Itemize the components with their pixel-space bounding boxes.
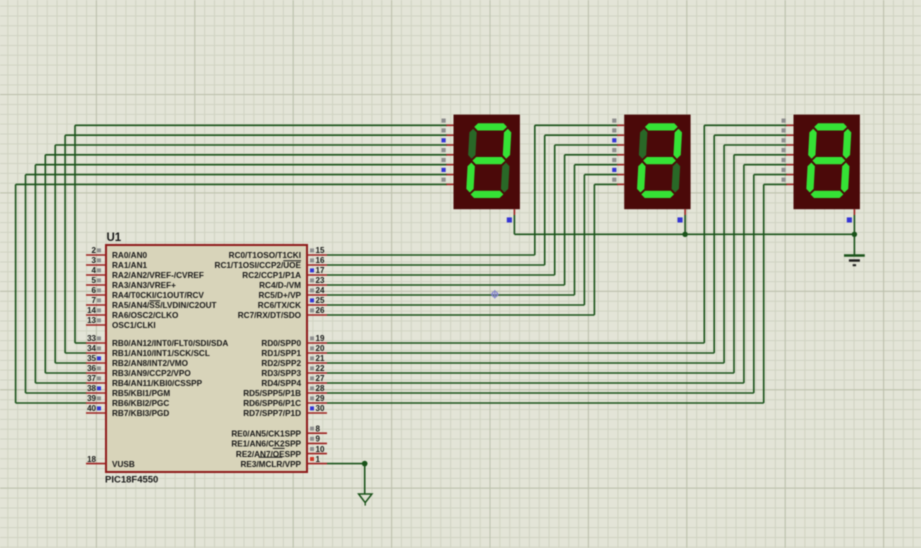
pin 34 stub/number (RB1) (86, 344, 106, 353)
pin 23 stub/number (RC) (307, 276, 327, 285)
pin 27 stub/number (RD4) (307, 374, 327, 383)
svg-text:RC5/D+/VP: RC5/D+/VP (258, 291, 301, 300)
svg-text:RD0/SPP0: RD0/SPP0 (261, 339, 301, 348)
pin name label RB1/AN10/INT1/SCK/SCL (112, 349, 210, 358)
display D1 segment pin 3 stub (442, 138, 454, 145)
svg-text:22: 22 (316, 364, 325, 373)
svg-text:4: 4 (92, 266, 97, 275)
svg-text:RD7/SPP7/P1D: RD7/SPP7/P1D (243, 409, 301, 418)
pin 3 stub/number (RA) (86, 256, 106, 265)
pin 13 stub/number (RA) (86, 316, 106, 325)
op IC body: microcontroller U1 PIC18F4550 (106, 245, 307, 472)
svg-text:9: 9 (316, 435, 321, 444)
display D1 segment pin 7 stub (442, 178, 454, 185)
pin name label RA2/AN2/VREF-/CVREF (112, 271, 204, 280)
svg-text:27: 27 (316, 374, 325, 383)
pin 40 stub/number (RB7) (86, 404, 106, 413)
display D1 segment pin 2 stub (442, 128, 454, 135)
pin name label RD4/SPP4 (261, 379, 301, 388)
svg-text:RA5/AN4/SS/LVDIN/C2OUT: RA5/AN4/SS/LVDIN/C2OUT (112, 301, 216, 310)
pin name label RB7/KBI3/PGD (112, 409, 169, 418)
pin 5 stub/number (RA) (86, 276, 106, 285)
display D1 segment pin 4 stub (442, 148, 454, 155)
pin name label RA5/AN4/SS/LVDIN/C2OUT (112, 301, 216, 310)
svg-text:RE3/MCLR/VPP: RE3/MCLR/VPP (240, 460, 301, 469)
svg-text:24: 24 (316, 286, 325, 295)
pin name label VUSB (112, 460, 135, 469)
pin name label RC0/T1OSO/T1CKI (229, 251, 301, 260)
pin name label RB3/AN9/CCP2/VPO (112, 369, 191, 378)
pin name label OSC1/CLKI (112, 321, 156, 330)
reference designator U1 (107, 232, 122, 244)
svg-text:2: 2 (92, 246, 97, 255)
pin name label RE0/AN5/CK1SPP (231, 429, 301, 438)
wire RD5 (pin row) to display D3 segment pin 6 (327, 175, 787, 393)
pin 2 stub/number (RA) (86, 246, 106, 255)
pin 30 stub/number (RD7) (307, 404, 327, 413)
svg-text:38: 38 (87, 384, 96, 393)
svg-text:RD5/SPP5/P1B: RD5/SPP5/P1B (243, 389, 301, 398)
svg-text:RE1/AN6/CK2SPP: RE1/AN6/CK2SPP (231, 440, 301, 449)
junction at D3 common / ground (852, 232, 857, 237)
pin 17 stub/number (RC) (307, 266, 327, 275)
7-segment display D2 showing 2 (624, 115, 690, 210)
wire common-cathode rail from D1 to D3 (514, 215, 854, 234)
svg-text:30: 30 (316, 404, 325, 413)
pin 6 stub/number (RA) (86, 286, 106, 295)
svg-text:RA0/AN0: RA0/AN0 (112, 251, 147, 260)
display D2 common pin stub (678, 209, 686, 222)
wire RC (right pin row 6) to display D2 segment pin 6 (327, 175, 618, 305)
svg-text:40: 40 (87, 404, 96, 413)
wire RD0 (pin row) to display D3 segment pin 1 (327, 125, 787, 343)
pin name label RA4/T0CKI/C1OUT/RCV (112, 291, 204, 300)
display D1 common pin stub (507, 209, 515, 222)
svg-text:3: 3 (92, 256, 97, 265)
svg-text:RB6/KBI2/PGC: RB6/KBI2/PGC (112, 399, 169, 408)
svg-text:10: 10 (316, 445, 325, 454)
svg-text:37: 37 (87, 374, 96, 383)
pin 20 stub/number (RD1) (307, 344, 327, 353)
wire RC (right pin row 5) to display D2 segment pin 5 (327, 165, 618, 295)
pin name label RA3/AN3/VREF+ (112, 281, 176, 290)
svg-text:19: 19 (316, 334, 325, 343)
pin 37 stub/number (RB4) (86, 374, 106, 383)
svg-text:RD3/SPP3: RD3/SPP3 (261, 369, 301, 378)
svg-text:U1: U1 (107, 232, 122, 244)
svg-text:RC0/T1OSO/T1CKI: RC0/T1OSO/T1CKI (229, 251, 301, 260)
svg-text:23: 23 (316, 276, 325, 285)
pin name label RB4/AN11/KBI0/CSSPP (112, 379, 203, 388)
wire RB1 (pin 34) to display D1 segment pin 2 (65, 135, 447, 353)
wire RD4 (pin row) to display D3 segment pin 5 (327, 165, 787, 383)
pin 36 stub/number (RB3) (86, 364, 106, 373)
svg-text:35: 35 (87, 354, 96, 363)
svg-text:RC6/TX/CK: RC6/TX/CK (258, 301, 301, 310)
wire RB6 (pin 39) to display D1 segment pin 7 (16, 184, 447, 403)
value label PIC18F4550 (105, 475, 158, 486)
svg-text:6: 6 (92, 286, 97, 295)
pin name label RA1/AN1 (112, 261, 147, 270)
svg-text:RC2/CCP1/P1A: RC2/CCP1/P1A (242, 271, 301, 280)
pin name label RC7/RX/DT/SDO (238, 311, 302, 320)
pin name label RC6/TX/CK (258, 301, 301, 310)
pin name label RA0/AN0 (112, 251, 147, 260)
pin 25 stub/number (RC) (307, 296, 327, 305)
pin 24 stub/number (RC) (307, 286, 327, 295)
pin 29 stub/number (RD6) (307, 394, 327, 403)
wire RC (right pin row 4) to display D2 segment pin 4 (327, 155, 618, 285)
svg-text:RA1/AN1: RA1/AN1 (112, 261, 147, 270)
pin name label RD6/SPP6/P1C (243, 399, 301, 408)
pin 14 stub/number (RA) (86, 306, 106, 315)
svg-text:RA3/AN3/VREF+: RA3/AN3/VREF+ (112, 281, 176, 290)
display D3 segment pin 5 stub (782, 158, 794, 165)
wire RD2 (pin row) to display D3 segment pin 3 (327, 145, 787, 363)
svg-text:1: 1 (316, 455, 321, 464)
pin name label RC5/D+/VP (258, 291, 301, 300)
pin 39 stub/number (RB6) (86, 394, 106, 403)
7-segment display D1 showing 2 (454, 115, 520, 210)
svg-text:RB7/KBI3/PGD: RB7/KBI3/PGD (112, 409, 169, 418)
svg-text:RB2/AN8/INT2/VMO: RB2/AN8/INT2/VMO (112, 359, 189, 368)
pin 22 stub/number (RD3) (307, 364, 327, 373)
svg-text:25: 25 (316, 296, 325, 305)
svg-text:8: 8 (316, 424, 321, 433)
display D3 segment pin 3 stub (782, 138, 794, 145)
pin name label RD7/SPP7/P1D (243, 409, 301, 418)
overline on OE (RE2 row) (273, 447, 285, 449)
svg-text:RB1/AN10/INT1/SCK/SCL: RB1/AN10/INT1/SCK/SCL (112, 349, 210, 358)
svg-text:RE0/AN5/CK1SPP: RE0/AN5/CK1SPP (231, 429, 301, 438)
svg-text:29: 29 (316, 394, 325, 403)
svg-text:33: 33 (87, 334, 96, 343)
display D2 segment pin 5 stub (612, 158, 624, 165)
svg-text:RD2/SPP2: RD2/SPP2 (261, 359, 301, 368)
display D1 segment pin 1 stub (442, 119, 454, 126)
svg-text:RD4/SPP4: RD4/SPP4 (261, 379, 301, 388)
wire RD3 (pin row) to display D3 segment pin 4 (327, 155, 787, 373)
svg-text:13: 13 (87, 316, 96, 325)
wire RB2 (pin 35) to display D1 segment pin 3 (55, 145, 447, 363)
pin 4 stub/number (RA) (86, 266, 106, 275)
pin 7 stub/number (RA) (86, 296, 106, 305)
wire MCLR pin1 to ground (327, 464, 365, 494)
pin name label RD3/SPP3 (261, 369, 301, 378)
svg-text:RC4/D-/VM: RC4/D-/VM (259, 281, 301, 290)
display D1 segment pin 5 stub (442, 158, 454, 165)
svg-text:RB3/AN9/CCP2/VPO: RB3/AN9/CCP2/VPO (112, 369, 191, 378)
pin 16 stub/number (RC) (307, 256, 327, 265)
wire RB4 (pin 37) to display D1 segment pin 5 (35, 165, 447, 383)
svg-text:RA2/AN2/VREF-/CVREF: RA2/AN2/VREF-/CVREF (112, 271, 204, 280)
svg-text:26: 26 (316, 306, 325, 315)
pin 1 stub/number (RE3) (307, 455, 327, 464)
svg-text:PIC18F4550: PIC18F4550 (105, 475, 158, 486)
display D3 segment pin 2 stub (782, 128, 794, 135)
pin name label RD5/SPP5/P1B (243, 389, 301, 398)
svg-text:14: 14 (87, 306, 96, 315)
wire RC (right pin row 1) to display D2 segment pin 1 (327, 125, 618, 255)
display D3 segment pin 1 stub (782, 119, 794, 126)
svg-text:16: 16 (316, 256, 325, 265)
svg-text:17: 17 (316, 266, 325, 275)
wire RC (right pin row 7) to display D2 segment pin 7 (327, 184, 618, 315)
pin name label RB0/AN12/INT0/FLT0/SDI/SDA (112, 339, 228, 348)
display D2 segment pin 2 stub (612, 128, 624, 135)
svg-text:RC1/T1OSI/CCP2/UOE: RC1/T1OSI/CCP2/UOE (215, 261, 302, 270)
pin 9 stub/number (RE1) (307, 435, 327, 444)
display D2 segment pin 3 stub (612, 138, 624, 145)
pin name label RE2/AN7/OESPP (236, 450, 302, 459)
svg-text:RB0/AN12/INT0/FLT0/SDI/SDA: RB0/AN12/INT0/FLT0/SDI/SDA (112, 339, 228, 348)
pin name label RA6/OSC2/CLKO (112, 311, 179, 320)
sheet origin marker (blue crosshair) (491, 290, 500, 299)
ground arrow terminal below U1 (359, 494, 372, 506)
wire RB3 (pin 36) to display D1 segment pin 4 (45, 155, 447, 373)
junction at pin1 net corner (362, 461, 368, 467)
pin name label RB2/AN8/INT2/VMO (112, 359, 189, 368)
svg-text:15: 15 (316, 246, 325, 255)
pin name label RD0/SPP0 (261, 339, 301, 348)
pin 21 stub/number (RD2) (307, 354, 327, 363)
junction at D2 common (682, 232, 687, 237)
pin 18 stub/number (VUSB) (86, 455, 106, 464)
svg-text:RA4/T0CKI/C1OUT/RCV: RA4/T0CKI/C1OUT/RCV (112, 291, 204, 300)
pin name label RC1/T1OSI/CCP2/UOE (215, 261, 302, 270)
display D1 segment pin 6 stub (442, 168, 454, 175)
wire D2 common pin to rail (684, 215, 686, 234)
svg-text:18: 18 (87, 455, 96, 464)
7-segment display D3 showing 8 (794, 115, 860, 210)
ground symbol (earth) below D3 (844, 234, 865, 265)
pin name label RE1/AN6/CK2SPP (231, 440, 301, 449)
svg-text:RD1/SPP1: RD1/SPP1 (261, 349, 301, 358)
wire D3 common pin to rail/ground (853, 215, 855, 234)
display D3 segment pin 7 stub (782, 178, 794, 185)
svg-text:28: 28 (316, 384, 325, 393)
display D2 segment pin 4 stub (612, 148, 624, 155)
pin 28 stub/number (RD5) (307, 384, 327, 393)
pin 19 stub/number (RD0) (307, 334, 327, 343)
wire RD6 (pin row) to display D3 segment pin 7 (327, 184, 787, 403)
display D2 segment pin 1 stub (612, 119, 624, 126)
wire RB0 (pin 33) to display D1 segment pin 1 (75, 125, 447, 343)
overline on MCLR (RE3 row) (259, 456, 283, 458)
svg-text:5: 5 (92, 276, 97, 285)
pin name label RD2/SPP2 (261, 359, 301, 368)
display D3 common pin stub (847, 209, 855, 222)
pin name label RD1/SPP1 (261, 349, 301, 358)
svg-text:21: 21 (316, 354, 325, 363)
svg-text:20: 20 (316, 344, 325, 353)
display D2 segment pin 6 stub (612, 168, 624, 175)
svg-text:7: 7 (92, 296, 97, 305)
pin 33 stub/number (RB0) (86, 334, 106, 343)
svg-text:RA6/OSC2/CLKO: RA6/OSC2/CLKO (112, 311, 179, 320)
svg-text:36: 36 (87, 364, 96, 373)
overline on UOE (RC1 row) (283, 260, 301, 262)
pin name label RC4/D-/VM (259, 281, 301, 290)
svg-text:RC7/RX/DT/SDO: RC7/RX/DT/SDO (238, 311, 302, 320)
svg-text:RD6/SPP6/P1C: RD6/SPP6/P1C (243, 399, 301, 408)
overline on SS (RA5 row) (149, 300, 160, 302)
pin 15 stub/number (RC) (307, 246, 327, 255)
svg-text:39: 39 (87, 394, 96, 403)
pin name label RB5/KBI1/PGM (112, 389, 170, 398)
pin 35 stub/number (RB2) (86, 354, 106, 363)
wire RC (right pin row 2) to display D2 segment pin 2 (327, 135, 618, 265)
display D3 segment pin 4 stub (782, 148, 794, 155)
pin 10 stub/number (RE2) (307, 445, 327, 454)
display D3 segment pin 6 stub (782, 168, 794, 175)
svg-text:VUSB: VUSB (112, 460, 135, 469)
pin 8 stub/number (RE0) (307, 424, 327, 433)
pin name label RE3/MCLR/VPP (240, 460, 301, 469)
wire RB5 (pin 38) to display D1 segment pin 6 (26, 175, 448, 393)
pin 26 stub/number (RC) (307, 306, 327, 315)
pin 38 stub/number (RB5) (86, 384, 106, 393)
pin name label RC2/CCP1/P1A (242, 271, 301, 280)
svg-text:OSC1/CLKI: OSC1/CLKI (112, 321, 156, 330)
svg-text:34: 34 (87, 344, 96, 353)
wire RD1 (pin row) to display D3 segment pin 2 (327, 135, 787, 353)
display D2 segment pin 7 stub (612, 178, 624, 185)
svg-text:RB4/AN11/KBI0/CSSPP: RB4/AN11/KBI0/CSSPP (112, 379, 203, 388)
wire RC (right pin row 3) to display D2 segment pin 3 (327, 145, 618, 275)
pin name label RB6/KBI2/PGC (112, 399, 169, 408)
svg-text:RB5/KBI1/PGM: RB5/KBI1/PGM (112, 389, 170, 398)
